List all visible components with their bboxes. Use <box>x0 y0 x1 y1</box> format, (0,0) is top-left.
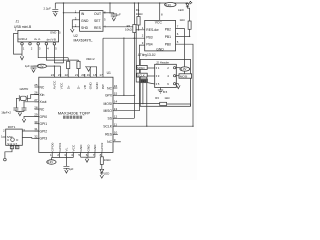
svg-text:15: 15 <box>114 91 118 95</box>
svg-text:13: 13 <box>114 107 118 111</box>
svg-text:GND-d: GND-d <box>18 37 27 41</box>
svg-text:GND: GND <box>50 31 56 35</box>
svg-text:ROT1: ROT1 <box>8 125 16 129</box>
svg-text:10kΩ: 10kΩ <box>125 27 132 31</box>
svg-text:3.3V: 3.3V <box>38 64 44 68</box>
svg-text:PB2: PB2 <box>165 27 171 31</box>
svg-text:Xout: Xout <box>40 100 47 104</box>
svg-text:VCC: VCC <box>72 144 76 151</box>
svg-text:MAX3420E TQFP: MAX3420E TQFP <box>58 110 91 115</box>
svg-text:GPI3: GPI3 <box>40 137 48 141</box>
svg-text:MISO: MISO <box>137 66 145 70</box>
svg-text:1kΩ: 1kΩ <box>164 96 169 100</box>
svg-text:LED: LED <box>178 8 184 12</box>
svg-text:MOSI: MOSI <box>180 74 187 78</box>
svg-text:12: 12 <box>114 114 118 118</box>
svg-text:3.3V: 3.3V <box>47 160 53 164</box>
svg-text:GPO1: GPO1 <box>58 142 62 151</box>
svg-text:PB4: PB4 <box>146 42 152 46</box>
svg-text:PB0: PB0 <box>165 42 171 46</box>
svg-text:10: 10 <box>114 130 118 134</box>
svg-text:GND: GND <box>93 144 97 152</box>
svg-text:21: 21 <box>75 73 79 77</box>
svg-text:PB1: PB1 <box>165 35 171 39</box>
svg-text:3.3V: 3.3V <box>165 3 171 7</box>
svg-text:U1: U1 <box>107 71 111 75</box>
svg-text:U2: U2 <box>74 34 78 38</box>
svg-text:2: 2 <box>57 153 59 157</box>
svg-text:R3: R3 <box>155 96 159 100</box>
svg-text:23: 23 <box>58 73 62 77</box>
svg-text:LED: LED <box>104 172 110 176</box>
svg-text:MISO: MISO <box>103 109 112 113</box>
svg-text:GND: GND <box>88 81 92 89</box>
svg-text:1µF: 1µF <box>25 64 30 68</box>
svg-text:10kΩ: 10kΩ <box>104 158 111 162</box>
svg-text:GPO3: GPO3 <box>100 142 104 151</box>
svg-text:VCC: VCC <box>155 21 163 25</box>
svg-text:VL: VL <box>65 147 69 151</box>
svg-text:9: 9 <box>114 138 116 142</box>
svg-text:3.3V: 3.3V <box>181 67 187 71</box>
svg-text:NC: NC <box>40 85 45 89</box>
svg-text:PB3: PB3 <box>146 36 152 40</box>
svg-text:NC: NC <box>107 140 112 144</box>
svg-text:16: 16 <box>114 84 118 88</box>
svg-text:29: 29 <box>34 113 38 117</box>
svg-text:OUT: OUT <box>94 12 101 16</box>
svg-text:VB: VB <box>83 85 87 89</box>
svg-text:NC: NC <box>40 108 45 112</box>
svg-text:ATtiny13-0J: ATtiny13-0J <box>138 53 156 57</box>
svg-text:SCLK: SCLK <box>137 74 145 78</box>
svg-text:SCLK: SCLK <box>103 125 113 129</box>
svg-text:Xin: Xin <box>40 93 45 97</box>
svg-text:24: 24 <box>51 73 55 77</box>
svg-text:1: 1 <box>50 153 52 157</box>
svg-text:11: 11 <box>114 122 117 126</box>
svg-text:MAX6349TL.: MAX6349TL. <box>74 39 94 43</box>
svg-text:GND: GND <box>81 19 89 23</box>
svg-text:IN: IN <box>81 12 85 16</box>
svg-text:GPI1: GPI1 <box>40 122 48 126</box>
svg-text:27: 27 <box>34 98 38 102</box>
svg-text:3: 3 <box>64 153 66 157</box>
svg-text:22: 22 <box>65 73 69 77</box>
svg-text:14: 14 <box>114 100 118 104</box>
svg-text:GPI2: GPI2 <box>40 129 48 133</box>
svg-text:GND: GND <box>156 47 164 51</box>
svg-text:MOSI: MOSI <box>103 102 112 106</box>
svg-text:SHD: SHD <box>81 26 89 30</box>
svg-text:GPX: GPX <box>105 94 113 98</box>
svg-text:RES-dw: RES-dw <box>146 28 159 32</box>
svg-text:GND: GND <box>86 144 90 152</box>
svg-text:17: 17 <box>99 73 103 77</box>
svg-text:SET: SET <box>94 19 101 23</box>
svg-text:D−: D− <box>77 85 81 89</box>
svg-text:NC: NC <box>107 86 112 90</box>
svg-text:GPO0: GPO0 <box>51 142 55 151</box>
svg-text:18pF×2: 18pF×2 <box>1 111 11 115</box>
svg-text:1µF: 1µF <box>116 13 121 17</box>
svg-text:GPI0: GPI0 <box>40 115 48 119</box>
svg-text:1µF: 1µF <box>68 167 73 171</box>
svg-text:AVCC: AVCC <box>53 80 57 89</box>
svg-text:5: 5 <box>78 153 80 157</box>
svg-text:33Ω×2: 33Ω×2 <box>86 57 95 61</box>
svg-text:25: 25 <box>34 83 38 87</box>
svg-text:31: 31 <box>34 127 38 131</box>
svg-text:26: 26 <box>34 91 38 95</box>
svg-text:D+: D+ <box>66 85 70 89</box>
svg-text:10kΩ: 10kΩ <box>136 12 143 16</box>
svg-text:1kΩ: 1kΩ <box>180 18 185 22</box>
svg-text:GND: GND <box>79 144 83 152</box>
svg-text:RES: RES <box>105 133 113 137</box>
svg-text:18: 18 <box>93 73 97 77</box>
svg-text:19: 19 <box>87 73 91 77</box>
svg-text:USB mini-B: USB mini-B <box>14 25 32 29</box>
svg-text:7: 7 <box>93 153 95 157</box>
svg-text:RES: RES <box>141 79 147 83</box>
svg-text:INT: INT <box>101 84 105 89</box>
svg-text:28: 28 <box>34 105 38 109</box>
svg-text:RES: RES <box>94 26 102 30</box>
svg-text:VCC: VCC <box>60 82 64 89</box>
svg-text:30: 30 <box>34 120 38 124</box>
svg-text:J1: J1 <box>16 19 20 23</box>
svg-text:d+ d-: d+ d- <box>34 37 41 41</box>
svg-text:20: 20 <box>81 73 85 77</box>
svg-text:12MHz: 12MHz <box>19 87 29 91</box>
svg-text:32: 32 <box>34 135 38 139</box>
svg-text:SS: SS <box>108 117 113 121</box>
svg-text:4: 4 <box>71 153 73 157</box>
svg-text:6: 6 <box>86 153 88 157</box>
svg-text:det V-B: det V-B <box>47 37 56 41</box>
svg-text:GND: GND <box>95 81 99 89</box>
svg-text:J2 Header: J2 Header <box>156 60 169 64</box>
svg-text:2.2µF: 2.2µF <box>44 7 52 11</box>
svg-text:B.5: B.5 <box>163 90 168 94</box>
